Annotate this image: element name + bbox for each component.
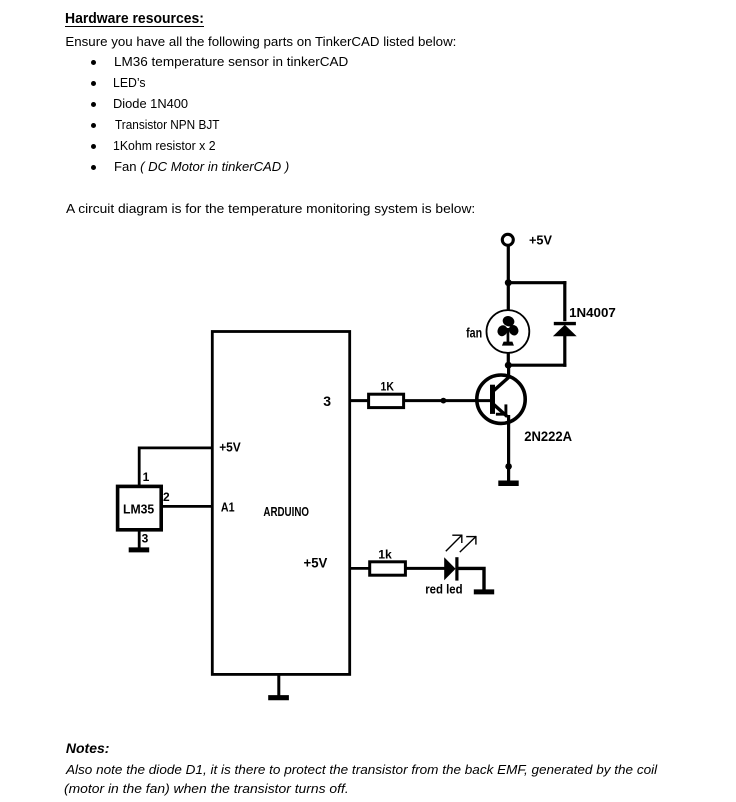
svg-text:A1: A1 [221, 499, 235, 514]
wire diode branch top vertical [563, 281, 566, 321]
svg-text:1K: 1K [381, 380, 394, 394]
wire LM35 pin3 to ground [138, 529, 141, 547]
wire arduino pin3 to R1 [350, 399, 370, 402]
wire collector vertical [507, 365, 510, 378]
diode D1 1N4007 [553, 324, 577, 337]
junction top (fan/diode split) [505, 279, 512, 286]
wire diode branch bottom vertical [563, 336, 566, 367]
junction bottom (fan/diode join) [505, 362, 512, 369]
wire R1 to transistor base [404, 399, 491, 402]
svg-text:+5V: +5V [529, 232, 552, 247]
svg-text:1: 1 [143, 470, 150, 484]
svg-text:2N222A: 2N222A [524, 429, 572, 444]
wire bottom junction to diode branch [508, 364, 566, 367]
led D2 red [444, 557, 457, 580]
fan M1 motor [487, 310, 530, 353]
resistor R2 1k [370, 562, 406, 575]
wire emitter down [507, 415, 510, 481]
wire top junction to diode branch [508, 281, 566, 284]
wire LM35 pin2 to arduino A1 [161, 505, 214, 508]
svg-text:+5V: +5V [304, 556, 328, 571]
junction emitter-ground [505, 463, 512, 470]
svg-text:red led: red led [425, 582, 462, 596]
notes [66, 741, 110, 755]
intro line [65, 35, 456, 48]
wire arduino +5V pin to R2 [350, 567, 370, 570]
junction base wire [441, 398, 447, 404]
ground LM35 symbol [129, 547, 150, 552]
circuit intro [66, 202, 475, 215]
wire fan to bottom junction [507, 353, 510, 366]
bullets [114, 55, 348, 68]
svg-text:3: 3 [142, 531, 149, 545]
ground ARDUINO stem wire [277, 675, 280, 697]
ground ARDUINO symbol [268, 695, 289, 700]
transistor Q1 2N222A [477, 375, 525, 423]
svg-text:1k: 1k [378, 547, 392, 561]
svg-text:ARDUINO: ARDUINO [263, 504, 309, 519]
svg-text:1N4007: 1N4007 [569, 305, 616, 320]
ground transistor emitter symbol [498, 480, 518, 486]
ground LED symbol [474, 589, 494, 594]
svg-text:+5V: +5V [219, 440, 241, 455]
resistor R1 1K [369, 394, 404, 407]
wire R2 to LED [405, 567, 444, 570]
heading [65, 12, 204, 26]
bullet dots [91, 60, 96, 65]
wire top junction to fan [507, 283, 510, 311]
node +5V supply terminal [502, 234, 513, 245]
wire LM35 pin1 to arduino +5V [139, 448, 213, 486]
ic U1 ARDUINO box [212, 332, 349, 675]
wire LED to ground [459, 568, 485, 589]
svg-text:LM35: LM35 [123, 503, 154, 517]
wire +5V terminal down to top junction [507, 246, 510, 285]
svg-text:fan: fan [466, 325, 482, 341]
svg-text:3: 3 [323, 393, 331, 409]
sensor U2 LM35 box [118, 486, 162, 529]
led light arrows [446, 535, 477, 552]
svg-text:2: 2 [163, 490, 170, 504]
